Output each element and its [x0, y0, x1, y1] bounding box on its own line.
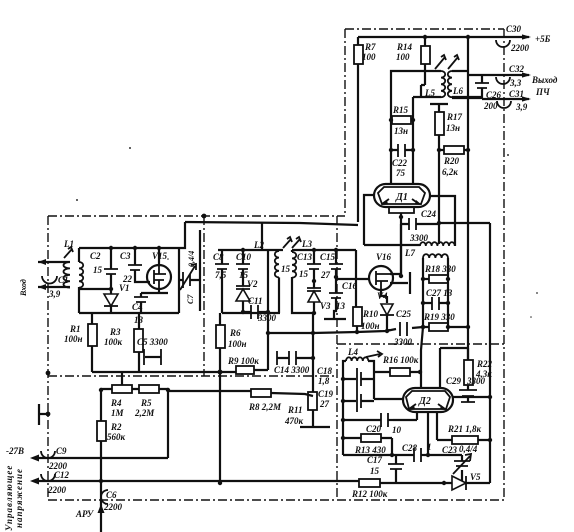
- node y223: [437, 221, 441, 225]
- inductor L1 secondary: [79, 248, 83, 313]
- svg-text:R16 100к: R16 100к: [382, 355, 419, 365]
- svg-text:3300: 3300: [393, 337, 413, 347]
- inductor L6: [448, 71, 482, 97]
- resistor R18: [423, 264, 456, 283]
- svg-text:С10: С10: [236, 252, 252, 262]
- svg-text:С22: С22: [392, 158, 408, 168]
- capacitor C23 variable: [442, 444, 478, 481]
- svg-text:С12: С12: [54, 470, 70, 480]
- node V16 drain: [399, 274, 403, 278]
- wire V16 source ground right: [390, 272, 410, 294]
- inductor L1 primary: [62, 239, 74, 288]
- shield border mid horizontal y376: [48, 375, 337, 377]
- resistor R4: [101, 385, 132, 421]
- svg-text:Выход: Выход: [531, 75, 558, 85]
- resistor R2: [97, 421, 126, 532]
- tuning arrow L4: [366, 351, 382, 357]
- ground C16: [324, 307, 346, 319]
- svg-text:100н: 100н: [64, 334, 83, 344]
- transistor V15: [147, 251, 171, 289]
- svg-text:L6: L6: [452, 86, 463, 96]
- inductor L5: [391, 71, 445, 98]
- wire D2 right pin: [453, 396, 490, 398]
- node divider top: [202, 214, 207, 219]
- wire D2 bottom pin: [427, 412, 429, 455]
- diode V4: [377, 291, 394, 331]
- svg-text:V16: V16: [376, 252, 392, 262]
- node R15 right: [411, 118, 415, 122]
- svg-text:С19: С19: [318, 389, 334, 399]
- transistor V16: [369, 252, 393, 290]
- node C15 bottom: [334, 275, 338, 279]
- svg-text:С27 13: С27 13: [426, 288, 453, 298]
- node C22 left: [389, 148, 393, 152]
- wire IF out lower: [452, 98, 529, 99]
- wire right rail from top: [467, 37, 469, 150]
- capacitor C28: [402, 442, 432, 462]
- wire supply drop x262: [261, 222, 263, 250]
- svg-text:100к: 100к: [104, 337, 123, 347]
- resistor R13: [343, 434, 392, 455]
- svg-text:напряжение: напряжение: [14, 468, 24, 528]
- ground R11: [300, 426, 330, 428]
- svg-text:С32: С32: [509, 64, 525, 74]
- resistor R10: [353, 307, 380, 332]
- wire block2 top rail: [218, 249, 283, 251]
- capacitor C26: [475, 75, 502, 111]
- wire +5B: [468, 36, 529, 38]
- node row x428: [426, 453, 430, 457]
- wire D1 left lead down: [364, 195, 374, 245]
- wire x313 down: [312, 313, 314, 392]
- svg-text:3300: 3300: [409, 233, 429, 243]
- wire -27V y458: [38, 457, 168, 459]
- varicap V3: [307, 281, 331, 313]
- svg-text:R20: R20: [443, 156, 460, 166]
- wire long y333: [268, 330, 390, 333]
- svg-text:27: 27: [320, 270, 331, 280]
- svg-text:С2: С2: [90, 251, 101, 261]
- arrow control bus: [30, 478, 39, 485]
- wire row y455: [343, 454, 462, 456]
- svg-text:С28: С28: [402, 443, 418, 453]
- node bus x220: [218, 481, 222, 485]
- node C3 top: [133, 246, 137, 250]
- svg-text:V1: V1: [119, 283, 130, 293]
- svg-text:С25: С25: [396, 309, 412, 319]
- inductor L2: [275, 251, 279, 313]
- node C27 left: [421, 301, 425, 305]
- svg-text:Д2: Д2: [418, 396, 431, 407]
- wire V16 source down: [381, 289, 387, 296]
- node D2 right rail: [488, 395, 492, 399]
- shield capacitor bar: [39, 404, 50, 425]
- inductor L4: [343, 357, 374, 455]
- svg-text:1,8: 1,8: [318, 376, 330, 386]
- shield border top-left block dashed: [48, 215, 345, 217]
- shield border divider x337: [336, 216, 338, 500]
- svg-text:С18: С18: [317, 366, 333, 376]
- resistor R14: [396, 37, 430, 97]
- svg-text:22: 22: [122, 274, 133, 284]
- svg-text:R19 330: R19 330: [423, 312, 455, 322]
- svg-text:15: 15: [93, 265, 103, 275]
- node R5 right: [166, 388, 170, 392]
- svg-text:С9: С9: [56, 446, 67, 456]
- svg-text:7,5: 7,5: [215, 270, 227, 280]
- node R14 top: [423, 35, 427, 39]
- inductor L7: [364, 242, 455, 258]
- node V3 bottom: [312, 311, 316, 315]
- node C10 top: [241, 248, 245, 252]
- svg-text:3300: 3300: [257, 313, 277, 323]
- node V4 bottom: [385, 329, 389, 333]
- arrow antenna upper: [38, 259, 46, 265]
- diode V1: [104, 283, 130, 313]
- speck: [76, 147, 538, 318]
- node R20 right: [466, 148, 470, 152]
- svg-text:R9 100к: R9 100к: [227, 356, 259, 366]
- resistor R17: [435, 112, 463, 150]
- svg-text:+5Б: +5Б: [535, 34, 551, 44]
- shield border divider x204: [203, 216, 205, 376]
- svg-text:АРУ: АРУ: [75, 509, 95, 519]
- wire R20 rail down: [467, 150, 469, 360]
- wire x356 vertical: [355, 250, 357, 307]
- svg-text:L7: L7: [404, 248, 415, 258]
- capacitor C15: [320, 250, 343, 280]
- wire antenna upper: [38, 261, 62, 263]
- node D1 pin: [399, 215, 403, 219]
- svg-text:С24: С24: [421, 209, 437, 219]
- varicap V2: [236, 279, 258, 312]
- capacitor C22: [391, 144, 413, 178]
- arrow +5B: [522, 34, 531, 39]
- node R19 left: [421, 325, 425, 329]
- svg-text:13: 13: [336, 301, 346, 311]
- wire D2 topleft pin: [421, 327, 423, 388]
- svg-text:С31: С31: [509, 89, 524, 99]
- node C2 top: [109, 246, 113, 250]
- wire control bus y481: [38, 481, 442, 483]
- resistor R19: [423, 312, 470, 331]
- wire V16 drain: [390, 224, 401, 274]
- svg-text:L3: L3: [301, 239, 312, 249]
- wire rail x391 down: [390, 98, 392, 184]
- node V5 left: [442, 481, 446, 485]
- label control voltage: [4, 465, 24, 531]
- capacitor C3: [120, 248, 150, 284]
- svg-text:R22: R22: [476, 359, 493, 369]
- arrow -27V: [30, 455, 39, 462]
- svg-text:100н: 100н: [361, 321, 380, 331]
- wire supply rail y222: [185, 222, 358, 225]
- svg-text:R8 2,2М: R8 2,2М: [248, 402, 282, 412]
- capacitor C13: [297, 250, 321, 281]
- node row x392: [390, 453, 394, 457]
- svg-text:R6: R6: [229, 328, 241, 338]
- inductor L8: [423, 254, 448, 327]
- diode V5: [442, 472, 490, 490]
- resistor R9: [227, 356, 268, 374]
- svg-text:С7: С7: [186, 294, 195, 304]
- wire x268 down: [267, 312, 269, 333]
- svg-text:2200: 2200: [103, 502, 123, 512]
- resistor R3: [104, 313, 143, 372]
- svg-text:С6: С6: [106, 490, 117, 500]
- capacitor C2: [90, 248, 118, 289]
- node C19 left: [341, 399, 345, 403]
- node C25 right: [421, 325, 425, 329]
- node C20 left: [341, 418, 345, 422]
- stub to R4: [121, 372, 123, 385]
- svg-text:V4: V4: [377, 291, 388, 301]
- svg-text:R13 430: R13 430: [354, 445, 386, 455]
- tuning arrows L3: [283, 237, 301, 248]
- capacitor C27: [423, 288, 453, 310]
- capacitor C10: [236, 250, 252, 286]
- svg-text:L1: L1: [63, 239, 74, 249]
- wire antenna lower: [38, 286, 62, 288]
- wire block1 top rail: [79, 247, 179, 249]
- feedthrough cap C9: [41, 446, 68, 471]
- wire agc bus y372: [92, 371, 236, 373]
- svg-text:13н: 13н: [446, 123, 460, 133]
- capacitor C19cap: [343, 390, 374, 412]
- wire top supply rail y36: [358, 36, 468, 38]
- svg-text:3,9: 3,9: [48, 289, 61, 299]
- svg-text:R10: R10: [362, 309, 379, 319]
- arrow out lower: [522, 96, 531, 101]
- svg-text:R11: R11: [287, 405, 303, 415]
- svg-text:С17: С17: [367, 455, 383, 465]
- wire supply drop x185: [179, 222, 185, 248]
- resistor R5: [132, 385, 168, 418]
- resistor R15: [391, 105, 413, 136]
- node R6 bus: [218, 370, 223, 375]
- svg-text:R12 100к: R12 100к: [351, 489, 388, 499]
- D1 bottom pin wire: [400, 213, 402, 276]
- node R16 right: [418, 370, 422, 374]
- svg-text:Д1: Д1: [395, 192, 408, 203]
- shield border top-right box left: [344, 29, 346, 216]
- node x268 y333: [266, 331, 270, 335]
- labels C18 C19: [317, 366, 334, 409]
- svg-text:3300: 3300: [466, 376, 486, 386]
- shield border left vertical: [47, 216, 49, 500]
- wire rail x413 down: [412, 97, 414, 184]
- svg-text:R7: R7: [364, 42, 376, 52]
- arrow out upper: [522, 72, 531, 77]
- svg-text:С15: С15: [320, 252, 336, 262]
- svg-text:R21 1,8к: R21 1,8к: [447, 424, 482, 434]
- wire D1 right lead down: [430, 196, 455, 246]
- svg-text:L2: L2: [253, 240, 264, 250]
- node R18 right: [446, 277, 450, 281]
- svg-text:С14 3300: С14 3300: [274, 365, 310, 375]
- shield border right vertical: [503, 29, 505, 500]
- svg-text:С8: С8: [213, 252, 224, 262]
- shield border top-right box top: [345, 28, 504, 30]
- capacitor C20: [366, 413, 402, 435]
- wire y223 to right rail: [439, 223, 490, 397]
- wire block1 right edge: [178, 248, 180, 313]
- node C27 right: [446, 301, 450, 305]
- arrow ARU: [98, 504, 105, 513]
- svg-text:С4: С4: [132, 302, 143, 312]
- wire IF out upper: [467, 74, 529, 76]
- feedthrough cap C32: [496, 64, 525, 88]
- svg-text:560к: 560к: [107, 432, 126, 442]
- svg-text:С29: С29: [446, 376, 462, 386]
- node V2 bottom: [241, 310, 245, 314]
- node V15 drain: [157, 246, 161, 250]
- resistor R7: [354, 37, 376, 222]
- svg-text:V2: V2: [247, 279, 258, 289]
- node R13 left: [341, 436, 345, 440]
- svg-text:15: 15: [281, 264, 291, 274]
- capacitor C17: [367, 455, 404, 483]
- svg-text:10: 10: [392, 425, 402, 435]
- wire right rail lower: [489, 397, 491, 483]
- node C11 right: [266, 310, 270, 314]
- svg-text:С5 3300: С5 3300: [137, 337, 168, 347]
- capacitor C25: [386, 309, 423, 347]
- node R20 left: [437, 148, 441, 152]
- svg-text:200: 200: [483, 101, 498, 111]
- wire R17 rail down to tap: [438, 150, 440, 244]
- diode device D2: [403, 388, 453, 412]
- wire L2 left straight: [267, 250, 269, 312]
- svg-text:Вход: Вход: [19, 279, 28, 297]
- ground above R17: [430, 104, 448, 112]
- wire D2 left pin: [374, 398, 403, 400]
- capacitor C7 variable: [179, 251, 200, 304]
- svg-text:С13: С13: [297, 252, 313, 262]
- capacitor C18cap: [343, 368, 374, 390]
- svg-text:13н: 13н: [394, 126, 408, 136]
- svg-text:-27В: -27В: [6, 446, 24, 456]
- node C15 top: [334, 248, 338, 252]
- D1 bottom box: [389, 206, 414, 213]
- feedthrough cap C6: [101, 490, 123, 512]
- svg-text:2,2М: 2,2М: [134, 408, 155, 418]
- svg-text:ПЧ: ПЧ: [535, 87, 550, 97]
- arrow antenna lower: [38, 284, 46, 290]
- node x468 y327: [466, 325, 470, 329]
- wire block1 bottom rail: [79, 312, 179, 314]
- svg-text:0,4/4: 0,4/4: [187, 251, 196, 267]
- resistor R22: [464, 359, 493, 385]
- wire x268 down2: [267, 333, 269, 367]
- node R4 left: [99, 388, 103, 392]
- svg-text:С20: С20: [366, 424, 382, 434]
- svg-text:1М: 1М: [111, 408, 125, 418]
- node bus x101: [99, 479, 103, 483]
- svg-text:3,9: 3,9: [515, 102, 528, 112]
- svg-text:С23: С23: [442, 445, 458, 455]
- resistor R1: [64, 313, 97, 372]
- node R15 left: [389, 118, 393, 122]
- node R21 right: [488, 438, 492, 442]
- capacitor C5: [137, 337, 168, 365]
- capacitor C16: [329, 277, 358, 311]
- node R18 left: [421, 277, 425, 281]
- resistor R11: [284, 392, 317, 426]
- node on border y373: [46, 371, 51, 376]
- node V1 top: [109, 287, 113, 291]
- resistor R16: [374, 355, 420, 376]
- svg-text:Управляющее: Управляющее: [4, 465, 14, 531]
- tuning arrows L5 L6: [435, 55, 459, 69]
- svg-text:15: 15: [370, 466, 380, 476]
- wire D2 bottomright pin: [436, 412, 438, 440]
- svg-text:470к: 470к: [284, 416, 304, 426]
- wire R5 node to R8: [168, 390, 251, 392]
- svg-text:С3: С3: [120, 251, 131, 261]
- capacitor C8: [213, 250, 229, 313]
- capacitor C1: [42, 275, 69, 299]
- resistor R21: [437, 424, 490, 444]
- svg-text:R18 330: R18 330: [424, 264, 456, 274]
- svg-text:R15: R15: [392, 105, 409, 115]
- svg-text:2200: 2200: [510, 43, 530, 53]
- svg-text:27: 27: [319, 399, 330, 409]
- node top rail right: [466, 35, 470, 39]
- tuning arrow L1: [64, 247, 73, 258]
- svg-text:0,4/4: 0,4/4: [459, 444, 478, 454]
- node R19 right: [446, 325, 450, 329]
- resistor R6: [216, 313, 247, 372]
- svg-text:R14: R14: [396, 42, 413, 52]
- feedthrough cap C31: [497, 89, 528, 112]
- svg-text:1: 1: [427, 442, 432, 452]
- shield border bottom: [48, 499, 505, 501]
- svg-text:100н: 100н: [228, 339, 247, 349]
- resistor R8: [248, 389, 313, 412]
- diode device D1: [374, 184, 430, 207]
- inductor L3: [281, 250, 314, 313]
- svg-text:R2: R2: [110, 422, 122, 432]
- wire D2 topright pin: [440, 348, 468, 388]
- shield border D2 block top dashed: [337, 343, 504, 345]
- svg-text:R17: R17: [446, 112, 463, 122]
- wire V15 source: [141, 288, 168, 293]
- capacitor C11: [243, 296, 277, 323]
- node C13 bottom: [312, 279, 316, 283]
- node C18 left: [341, 377, 345, 381]
- wire block2 bottom rail: [222, 312, 280, 314]
- node R10 bottom: [355, 330, 359, 334]
- wire C20 row: [343, 412, 417, 420]
- feedthrough cap C12: [41, 470, 70, 495]
- wire R5 node down: [167, 390, 169, 458]
- svg-text:V3: V3: [320, 301, 331, 311]
- node C13 top: [312, 248, 316, 252]
- wire R6 node down: [219, 372, 221, 483]
- wire x200 vertical: [199, 230, 201, 311]
- svg-text:R4: R4: [110, 398, 122, 408]
- resistor R12: [351, 479, 388, 499]
- node C22 right: [411, 148, 415, 152]
- capacitor C4: [132, 293, 148, 325]
- capacitor C24: [401, 209, 439, 243]
- svg-text:R5: R5: [140, 398, 152, 408]
- svg-text:15: 15: [299, 269, 309, 279]
- wire block3 top rail: [292, 249, 356, 251]
- node C14 junction: [311, 356, 315, 360]
- tap wire L1: [80, 288, 111, 290]
